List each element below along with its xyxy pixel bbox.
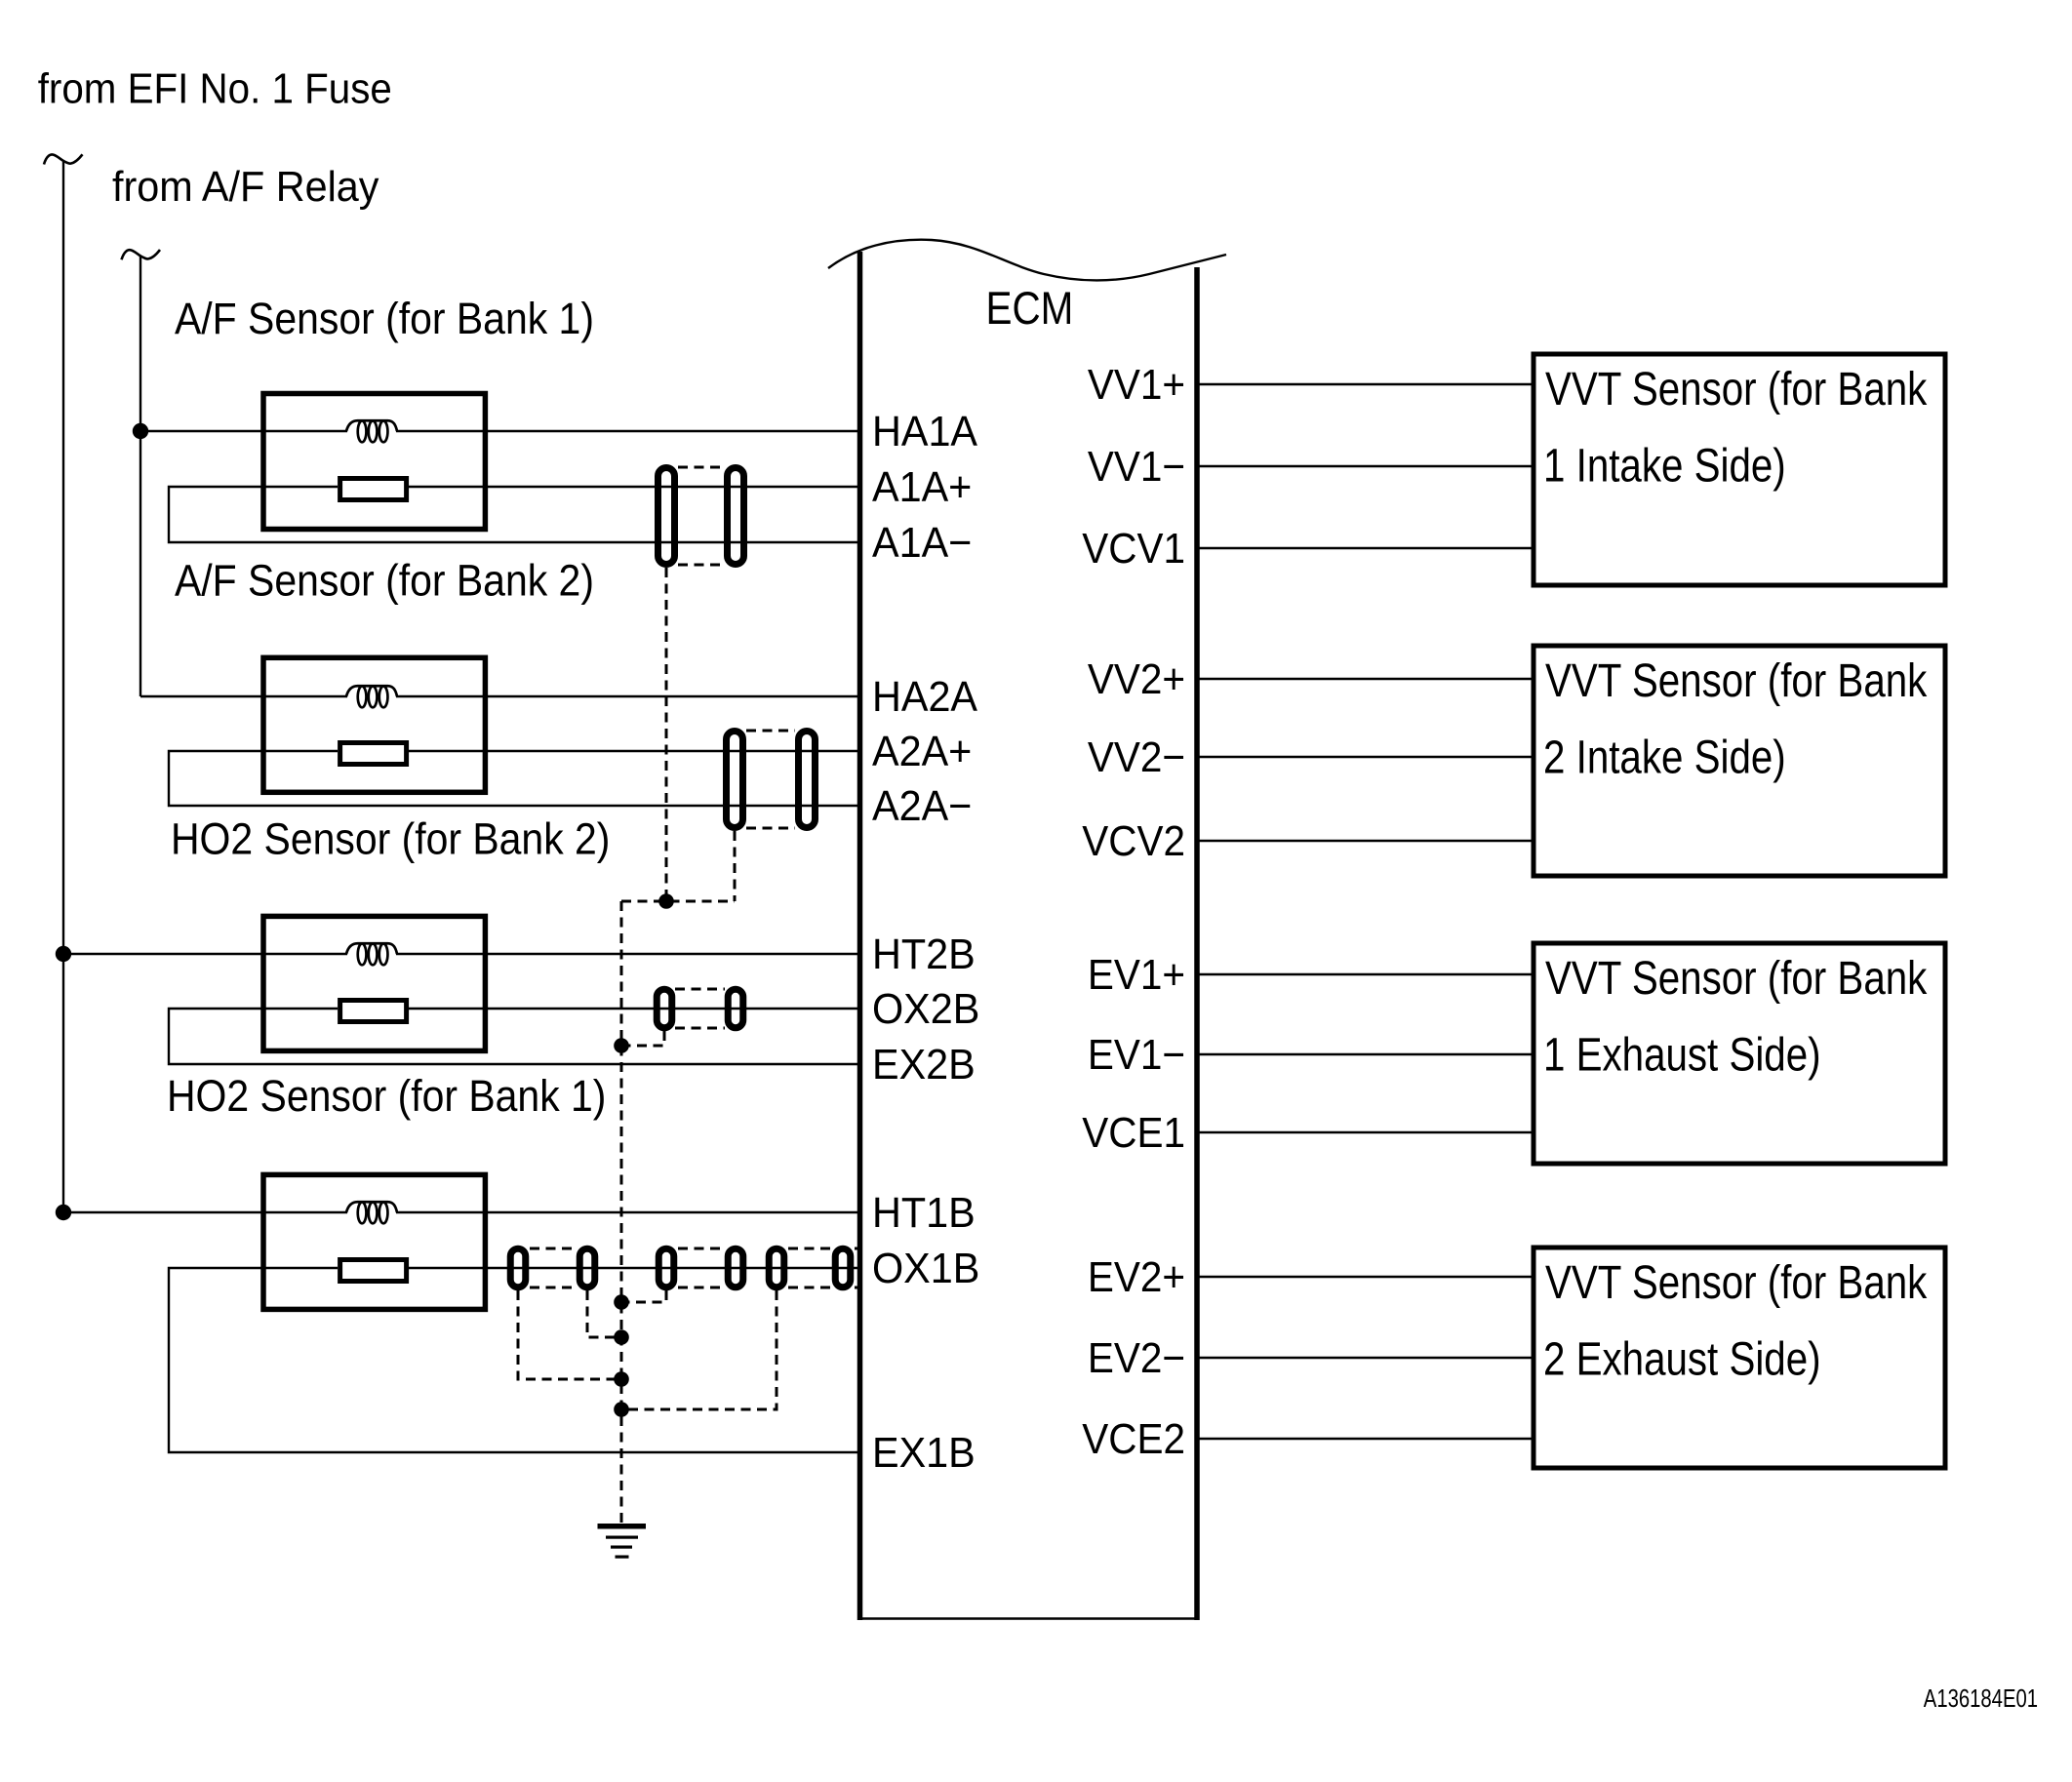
wire: HA1A heater feed (right of coil to ECM) — [396, 430, 859, 432]
svg-text:A2A−: A2A− — [872, 782, 972, 830]
svg-text:VVT Sensor (for Bank: VVT Sensor (for Bank — [1545, 364, 1928, 416]
svg-text:A/F Sensor (for Bank 2): A/F Sensor (for Bank 2) — [175, 557, 594, 606]
svg-text:A2A+: A2A+ — [872, 728, 972, 775]
break symbol on A/F relay rail — [122, 250, 161, 259]
wire: EX2B element return loop — [169, 1009, 859, 1064]
VVT sensor (Bank 1 intake) box — [1534, 354, 1945, 585]
svg-text:ECM: ECM — [986, 283, 1074, 335]
ECM torn-top wavy edge — [828, 240, 1226, 281]
shield drain trunk to ground (dashed) — [620, 901, 623, 1523]
shield drain wire A2A (dashed) — [734, 831, 737, 901]
ECM bottom edge — [857, 1617, 1200, 1620]
svg-text:VCV2: VCV2 — [1082, 816, 1185, 864]
shield oval OX1B 5 — [769, 1248, 784, 1287]
shield oval OX2B right — [728, 989, 743, 1028]
svg-text:VVT Sensor (for Bank: VVT Sensor (for Bank — [1545, 953, 1928, 1005]
svg-text:1 Intake Side): 1 Intake Side) — [1543, 440, 1786, 492]
wire: VCE2 ECM to VVT sensor 4 — [1200, 1438, 1534, 1440]
shield oval OX1B 2 — [579, 1248, 595, 1287]
shield drain wire OX1B oval2 (dashed) — [587, 1290, 621, 1337]
shield oval A2A left — [727, 732, 743, 828]
wire: VCV1 ECM to VVT sensor 1 — [1200, 547, 1534, 549]
break symbol on EFI fuse rail — [44, 154, 83, 164]
shield drain wire OX1B oval1 (dashed) — [518, 1290, 621, 1379]
svg-text:2 Intake Side): 2 Intake Side) — [1543, 732, 1786, 783]
shield dashed stub OX1B to ECM top — [855, 1247, 859, 1250]
svg-text:OX2B: OX2B — [872, 985, 979, 1033]
shield oval A2A right — [799, 732, 816, 828]
svg-text:VVT Sensor (for Bank: VVT Sensor (for Bank — [1545, 655, 1928, 707]
svg-text:1 Exhaust Side): 1 Exhaust Side) — [1543, 1029, 1821, 1081]
shield dashed box A1A pair top — [678, 466, 724, 469]
wire: HA2A heater feed (coil to ECM) — [396, 695, 859, 697]
wire: HT2B heater feed (coil to ECM) — [396, 953, 859, 955]
VVT sensor (Bank 2 exhaust) box — [1534, 1247, 1945, 1468]
HO2 sensor (for Bank 2) box — [263, 916, 485, 1050]
ECM right edge — [1194, 267, 1200, 1620]
shield dashed box OX1B pair2 top — [678, 1247, 724, 1250]
svg-text:A1A−: A1A− — [872, 519, 972, 567]
shield drain bus horizontal (dashed) — [621, 900, 735, 903]
shield dashed box A2A pair bottom — [746, 827, 795, 830]
shield drain wire OX1B oval5 (dashed) — [621, 1290, 777, 1409]
node: junction EFI rail to HT2B — [56, 946, 71, 962]
wire: VV1+ ECM to VVT sensor 1 — [1200, 383, 1534, 385]
svg-text:from A/F Relay: from A/F Relay — [112, 163, 379, 211]
svg-text:OX1B: OX1B — [872, 1245, 979, 1292]
wire: EV2+ ECM to VVT sensor 4 — [1200, 1276, 1534, 1278]
svg-text:VVT Sensor (for Bank: VVT Sensor (for Bank — [1545, 1257, 1928, 1309]
node: OX1B oval3 drain junction dot — [614, 1294, 629, 1310]
shield dashed box OX2B pair bottom — [675, 1027, 725, 1030]
VVT sensor (Bank 2 intake) box — [1534, 646, 1945, 876]
svg-text:VCV1: VCV1 — [1082, 524, 1185, 572]
shield dashed box OX1B pair3 top — [788, 1247, 831, 1250]
wire: A1A+ element to ECM — [409, 486, 859, 488]
wire: A2A- element return loop — [169, 751, 859, 806]
heater coil, HO2 sensor Bank 2 — [346, 943, 397, 965]
wire: HT2B heater feed (rail to coil) — [63, 953, 347, 955]
heater coil, A/F sensor Bank 2 — [346, 686, 397, 707]
node: OX1B oval5 drain junction dot — [614, 1402, 629, 1417]
node: OX2B drain junction dot — [614, 1038, 629, 1053]
sensing element, HO2 sensor Bank 1 — [340, 1260, 407, 1282]
svg-text:HO2 Sensor (for Bank 2): HO2 Sensor (for Bank 2) — [171, 814, 610, 863]
wire: OX2B element to ECM — [409, 1008, 859, 1010]
shield oval OX1B 3 — [658, 1248, 674, 1287]
svg-text:HT2B: HT2B — [872, 931, 976, 978]
shield oval OX1B 1 — [510, 1248, 526, 1287]
wire: OX1B element to ECM — [409, 1267, 859, 1269]
wire: EFI No.1 Fuse rail (vertical) — [62, 161, 64, 1213]
shield dashed box OX1B pair3 bottom — [788, 1287, 831, 1289]
node: shield bus junction dot — [658, 893, 674, 909]
svg-text:HA1A: HA1A — [872, 408, 978, 455]
wire: HT1B heater feed (rail elbow to coil) — [63, 1211, 347, 1213]
svg-text:VCE1: VCE1 — [1082, 1108, 1185, 1156]
ground symbol — [598, 1524, 647, 1559]
heater coil, A/F sensor Bank 1 — [346, 420, 397, 442]
svg-text:A136184E01: A136184E01 — [1924, 1684, 2038, 1713]
ECM left edge — [857, 252, 863, 1620]
shield dashed box OX1B pair1 top — [530, 1247, 576, 1250]
node: OX1B oval1 drain junction dot — [614, 1371, 629, 1387]
svg-text:A/F Sensor (for Bank 1): A/F Sensor (for Bank 1) — [175, 295, 594, 343]
node: OX1B oval2 drain junction dot — [614, 1329, 629, 1345]
HO2 sensor (for Bank 1) box — [263, 1174, 485, 1309]
shield dashed box OX1B pair2 bottom — [678, 1287, 724, 1289]
sensing element, HO2 sensor Bank 2 — [340, 1001, 407, 1022]
shield oval OX2B left — [657, 989, 672, 1028]
wire: VCV2 ECM to VVT sensor 2 — [1200, 840, 1534, 842]
wire: VV2- ECM to VVT sensor 2 — [1200, 756, 1534, 758]
A/F sensor (for Bank 1) box — [263, 394, 485, 530]
shield oval OX1B 4 — [728, 1248, 743, 1287]
shield oval OX1B 6 — [835, 1248, 851, 1287]
wire: HT1B heater feed (coil to ECM) — [396, 1211, 859, 1213]
shield dashed box A2A pair top — [746, 730, 795, 733]
VVT sensor (Bank 1 exhaust) box — [1534, 943, 1945, 1164]
wire: A1A- element return loop — [169, 487, 859, 542]
wire: EV2- ECM to VVT sensor 4 — [1200, 1357, 1534, 1359]
A/F sensor (for Bank 2) box — [263, 657, 485, 792]
svg-text:EV1−: EV1− — [1088, 1030, 1185, 1078]
wire: VV1- ECM to VVT sensor 1 — [1200, 465, 1534, 467]
wire: VV2+ ECM to VVT sensor 2 — [1200, 678, 1534, 680]
svg-text:HO2 Sensor (for Bank 1): HO2 Sensor (for Bank 1) — [167, 1072, 606, 1121]
shield oval A1A right — [728, 468, 744, 565]
wire: A/F Relay rail (vertical) — [139, 257, 141, 697]
svg-text:EV2+: EV2+ — [1088, 1252, 1185, 1300]
shield dashed box OX2B pair top — [675, 988, 725, 991]
svg-text:VCE2: VCE2 — [1082, 1414, 1185, 1462]
svg-text:HT1B: HT1B — [872, 1189, 976, 1237]
svg-text:2 Exhaust Side): 2 Exhaust Side) — [1543, 1333, 1821, 1385]
node: junction A/F relay to HA1A — [133, 423, 148, 439]
svg-text:VV1+: VV1+ — [1088, 360, 1185, 408]
shield drain wire OX1B oval3 (dashed) — [621, 1290, 666, 1302]
shield drain wire OX2B (dashed) — [621, 1031, 664, 1046]
svg-text:EV2−: EV2− — [1088, 1333, 1185, 1381]
sensing element, A/F sensor Bank 1 — [340, 479, 407, 500]
svg-text:VV2−: VV2− — [1088, 733, 1185, 780]
shield dashed box A1A pair bottom — [678, 564, 724, 567]
svg-text:VV1−: VV1− — [1088, 442, 1185, 490]
wire: EX1B element return loop — [169, 1268, 859, 1452]
svg-text:HA2A: HA2A — [872, 673, 978, 721]
shield drain wire A1A (dashed) — [665, 568, 668, 901]
shield oval A1A left — [658, 468, 675, 565]
wire: HA2A heater feed (rail elbow to coil) — [140, 695, 347, 697]
wire: EV1+ ECM to VVT sensor 3 — [1200, 973, 1534, 975]
svg-text:A1A+: A1A+ — [872, 463, 972, 511]
shield dashed box OX1B pair1 bottom — [530, 1287, 576, 1289]
svg-text:from EFI No. 1 Fuse: from EFI No. 1 Fuse — [38, 64, 392, 112]
node: junction EFI rail to HT1B — [56, 1205, 71, 1220]
wire: HA1A heater feed (left of coil) — [140, 430, 347, 432]
heater coil, HO2 sensor Bank 1 — [346, 1202, 397, 1223]
sensing element, A/F sensor Bank 2 — [340, 743, 407, 765]
wire: VCE1 ECM to VVT sensor 3 — [1200, 1131, 1534, 1133]
wire: EV1- ECM to VVT sensor 3 — [1200, 1053, 1534, 1055]
svg-text:EX2B: EX2B — [872, 1041, 976, 1089]
svg-text:VV2+: VV2+ — [1088, 654, 1185, 702]
svg-text:EV1+: EV1+ — [1088, 950, 1185, 998]
svg-text:EX1B: EX1B — [872, 1429, 976, 1477]
shield dashed stub OX1B to ECM bottom — [855, 1287, 859, 1289]
wire: A2A+ element to ECM — [409, 750, 859, 752]
